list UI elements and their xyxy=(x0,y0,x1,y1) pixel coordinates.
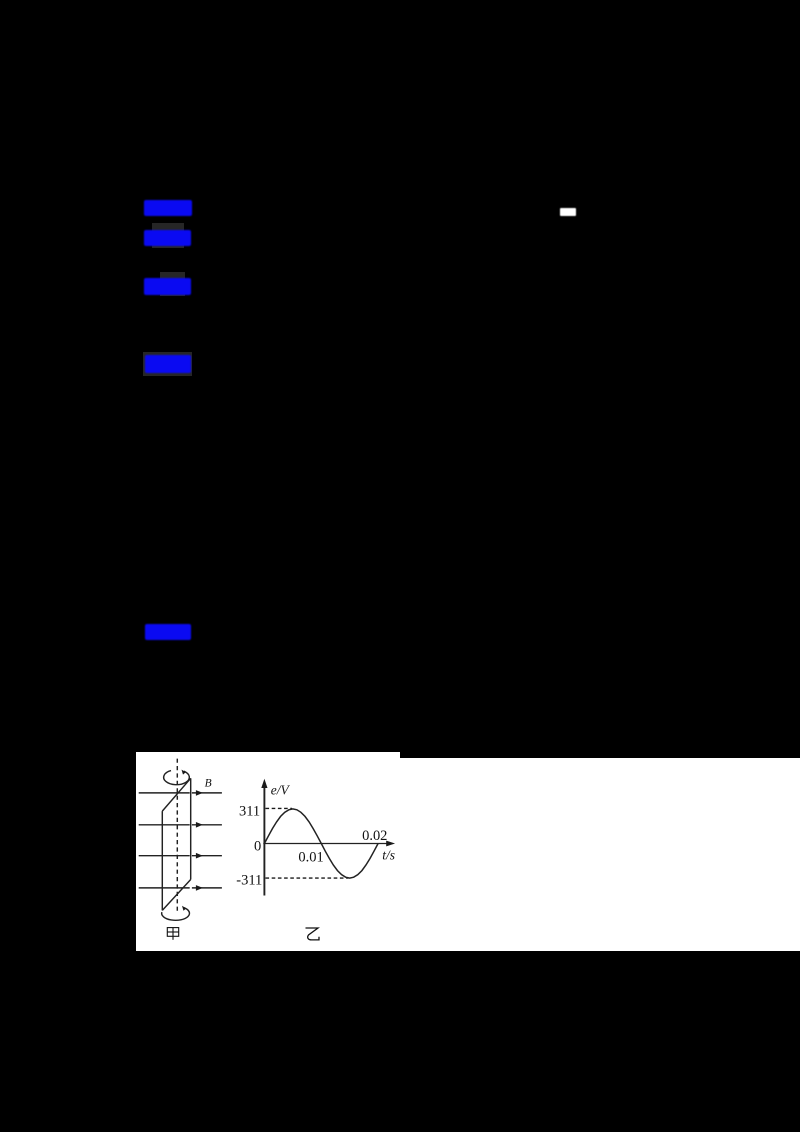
coil top diagonal xyxy=(162,778,190,811)
svg-text:0.01: 0.01 xyxy=(298,849,323,865)
blue label 3 (fenxi) xyxy=(144,278,191,295)
horizontal axis arrowhead xyxy=(386,840,395,846)
bottom rotation arrow xyxy=(161,907,189,920)
svg-text:-311: -311 xyxy=(236,872,262,888)
figure white background (opaque part) xyxy=(136,752,401,951)
blue label 4 (jieda) xyxy=(145,355,191,373)
svg-text:e/V: e/V xyxy=(270,782,290,797)
field line 1 xyxy=(138,792,189,794)
sine curve xyxy=(264,809,378,878)
svg-text:B: B xyxy=(204,777,211,789)
jia character (甲) xyxy=(167,927,178,939)
field line 4 xyxy=(138,887,189,889)
bottom rotation arrowhead xyxy=(182,905,186,910)
figure hidden white band (alpha-dropped region) xyxy=(400,758,800,951)
top rotation arrow xyxy=(163,770,189,784)
dashed rotation axis xyxy=(176,758,178,911)
coil left side xyxy=(161,811,163,910)
graph horizontal axis xyxy=(263,842,388,844)
field line 3 xyxy=(138,854,189,856)
coil bottom diagonal xyxy=(162,879,190,910)
svg-text:0.02: 0.02 xyxy=(362,828,387,844)
white answer dash xyxy=(560,208,576,216)
yi character (乙) xyxy=(305,928,318,940)
dashed level -311 xyxy=(265,877,348,879)
coil right side xyxy=(189,778,191,879)
field arrowheads xyxy=(195,790,202,796)
blue label 1 (kaodian) xyxy=(144,200,192,217)
top rotation arrowhead xyxy=(181,769,185,774)
svg-text:311: 311 xyxy=(239,803,260,819)
gray highlight behind label 2 xyxy=(152,223,184,248)
svg-text:t/s: t/s xyxy=(382,847,395,862)
gray highlight behind label 3 xyxy=(160,272,185,296)
dashed level +311 xyxy=(265,807,291,809)
figure drawing xyxy=(136,752,401,951)
blue label 5 (dianping) xyxy=(145,624,192,640)
svg-text:0: 0 xyxy=(254,838,261,854)
vertical axis arrowhead xyxy=(261,778,267,787)
blue label 2 (zhuanti) xyxy=(144,230,191,246)
gray highlight behind label 4 xyxy=(143,352,192,376)
field line 2 xyxy=(138,823,189,825)
graph vertical axis xyxy=(263,783,265,895)
